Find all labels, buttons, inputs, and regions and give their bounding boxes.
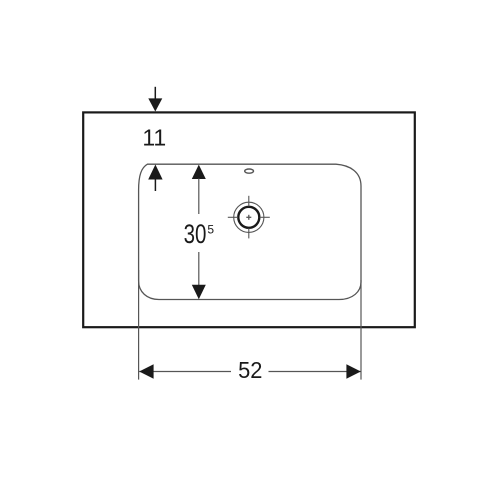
svg-text:52: 52 xyxy=(238,357,262,383)
svg-text:11: 11 xyxy=(142,125,166,151)
svg-text:30: 30 xyxy=(184,219,207,249)
svg-text:5: 5 xyxy=(207,223,214,237)
